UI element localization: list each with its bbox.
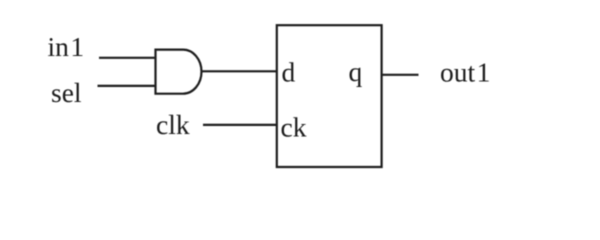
wire AND output to flip-flop d input: [202, 70, 278, 72]
svg-text:sel: sel: [51, 77, 82, 108]
AND gate U1: [156, 50, 202, 94]
wire flip-flop q output to out1: [383, 74, 419, 76]
svg-text:ck: ck: [281, 111, 307, 142]
D flip-flop U2 body: [277, 25, 382, 167]
wire in1 to AND gate input: [99, 57, 156, 59]
wire clk to flip-flop ck input: [203, 124, 277, 126]
svg-text:clk: clk: [156, 109, 190, 140]
wire sel to AND gate input: [98, 85, 157, 87]
svg-text:d: d: [282, 57, 296, 88]
svg-text:out1: out1: [440, 57, 490, 88]
svg-text:in1: in1: [48, 31, 85, 62]
svg-text:q: q: [349, 56, 363, 87]
